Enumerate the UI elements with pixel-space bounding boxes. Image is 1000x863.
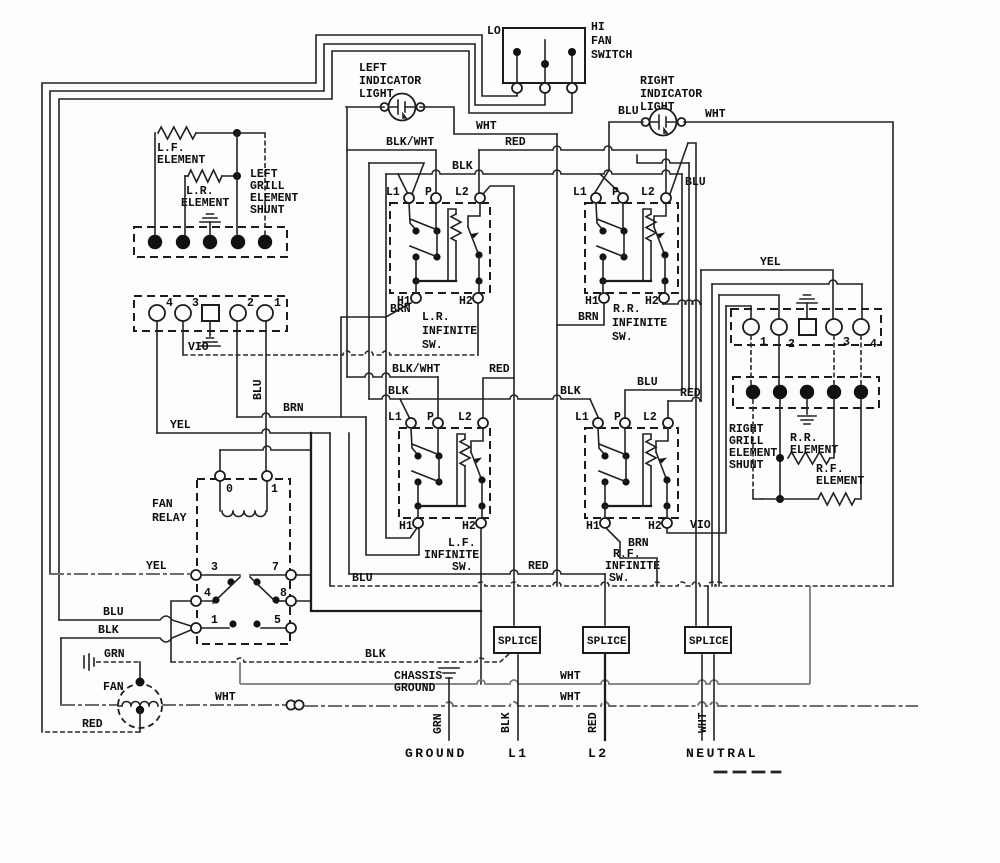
svg-text:SW.: SW. <box>422 339 443 352</box>
lamp symbol left indicator <box>381 94 425 121</box>
svg-text:BRN: BRN <box>283 402 304 415</box>
svg-text:INFINITE: INFINITE <box>422 325 477 338</box>
fan relay K1 <box>197 471 290 644</box>
svg-text:SW.: SW. <box>452 561 473 574</box>
ground symbol GRN <box>84 648 140 670</box>
left indicator light DS1 <box>359 62 421 101</box>
wire fan switch pin1 to left rail (outer nested line) <box>42 35 517 732</box>
wire BRN branch to H1 of L.R. <box>341 303 411 417</box>
ground above element block <box>209 222 211 235</box>
wire diagonal BLK to P of R.R. <box>600 174 621 194</box>
wire RED lower bus to splice 2 <box>349 570 605 574</box>
wire YEL into relay pin 3 <box>50 573 191 575</box>
svg-text:ELEMENT: ELEMENT <box>181 197 229 210</box>
wire diagonal BLK to L1 L.F. <box>400 399 410 419</box>
svg-text:SW.: SW. <box>609 572 630 585</box>
wire BLU lower bus <box>330 582 893 586</box>
svg-text:H1: H1 <box>397 295 411 308</box>
wire RED stem into R.F. L2 <box>667 401 669 418</box>
svg-text:L2: L2 <box>455 186 469 199</box>
svg-text:P: P <box>614 411 621 424</box>
svg-text:RIGHT: RIGHT <box>640 75 675 88</box>
infinite switch R.F. <box>585 418 678 528</box>
svg-text:H1: H1 <box>399 520 413 533</box>
wire left indicator left lead <box>346 106 384 108</box>
wire VIO up to H2 of L.R. <box>477 303 479 355</box>
svg-text:H1: H1 <box>586 520 600 533</box>
svg-text:YEL: YEL <box>146 560 167 573</box>
wire BLK lower bus <box>369 395 590 399</box>
wire YEL from R.R. H2 <box>662 303 664 304</box>
wire diagonal into R.F. L1 <box>590 399 598 417</box>
svg-text:SPLICE: SPLICE <box>587 636 627 648</box>
wire rail x712 <box>711 284 713 586</box>
infinite switch R.R. <box>585 193 678 303</box>
wire stair drop x330 <box>329 433 331 586</box>
wire WHT riser x810 <box>809 586 811 684</box>
svg-text:3: 3 <box>192 297 199 310</box>
svg-text:L1: L1 <box>573 186 587 199</box>
wire BRN to H1 of L.F. <box>366 417 419 555</box>
wires pins to element block right <box>750 335 752 385</box>
svg-text:BLK: BLK <box>365 648 386 661</box>
connector block right pins 1 2 3 4 <box>731 309 881 351</box>
svg-text:BLK/WHT: BLK/WHT <box>392 363 440 376</box>
svg-text:ELEMENT: ELEMENT <box>816 475 864 488</box>
wire vertical x369 L1 tie drop <box>368 163 370 399</box>
svg-text:BLU: BLU <box>103 606 124 619</box>
bottom terminal labels <box>405 746 758 761</box>
labels R.R. terminals <box>573 186 659 308</box>
svg-text:BLU: BLU <box>637 376 658 389</box>
wire BLK bus <box>386 170 682 174</box>
wire WHT middle run <box>239 662 241 684</box>
svg-text:SHUNT: SHUNT <box>250 204 285 217</box>
infinite switch L.R. <box>390 193 490 303</box>
svg-text:L.R.: L.R. <box>422 311 450 324</box>
wire diagonal feed L2 R.R. <box>670 143 688 194</box>
wire WHT fan line <box>162 704 287 706</box>
wire RED from R.F. L2 riser <box>668 397 701 401</box>
wire BRN from pin 2 <box>236 321 238 417</box>
wire GRN stub <box>448 678 450 740</box>
svg-text:SW.: SW. <box>612 331 633 344</box>
wire RED branch to L2 of L.F. <box>483 378 514 418</box>
wire RED to L2 of R.R. <box>665 150 667 192</box>
right grill element shunt dashed <box>729 399 777 499</box>
fan motor M1 <box>103 662 162 728</box>
wire BRN from R.R. H1 <box>557 303 604 325</box>
wire relay pin0 feed <box>220 446 311 450</box>
wire from relay pin 4 <box>171 601 191 662</box>
splice box 3 <box>685 627 731 653</box>
svg-text:WHT: WHT <box>215 691 236 704</box>
svg-text:RELAY: RELAY <box>152 512 187 525</box>
svg-text:L1: L1 <box>575 411 589 424</box>
svg-text:WHT: WHT <box>560 691 581 704</box>
svg-text:BLU: BLU <box>252 379 265 400</box>
svg-text:WHT: WHT <box>560 670 581 683</box>
svg-text:INFINITE: INFINITE <box>612 317 667 330</box>
relay contacts 1/5 row <box>191 614 296 633</box>
svg-text:WHT: WHT <box>705 108 726 121</box>
label L.R. INFINITE SW. <box>422 311 477 352</box>
svg-text:FAN: FAN <box>152 498 173 511</box>
wire YEL top right <box>701 270 833 319</box>
svg-text:VIO: VIO <box>690 519 711 532</box>
labels R.F. terminals <box>575 411 662 533</box>
svg-text:1: 1 <box>211 614 218 627</box>
label HI FAN SWITCH <box>591 21 633 62</box>
svg-text:LIGHT: LIGHT <box>359 88 394 101</box>
wire BLK/WHT vertical from indicator <box>346 107 348 377</box>
svg-text:GROUND: GROUND <box>405 746 467 761</box>
svg-text:4: 4 <box>204 587 211 600</box>
svg-text:8: 8 <box>280 587 287 600</box>
svg-text:R.R.: R.R. <box>613 303 641 316</box>
lamp symbol right indicator <box>642 109 686 136</box>
splice box 1 <box>494 627 540 653</box>
svg-text:VIO: VIO <box>188 341 209 354</box>
wire fan switch pin3 to BLU rail (inner nested line) <box>59 51 572 620</box>
svg-text:H2: H2 <box>462 520 476 533</box>
wire BLU drop to P of R.F. <box>625 174 682 418</box>
svg-text:0: 0 <box>226 483 233 496</box>
wire H2 L.F. stem down <box>480 529 482 574</box>
label L.F. INFINITE SW. <box>424 537 479 574</box>
wire RED stair drop <box>348 433 350 574</box>
fan switch S1 <box>503 28 585 93</box>
wire BLU from right indicator to L.R. switch L1 <box>594 122 643 194</box>
wire BLU from pin 1 to relay coil <box>265 321 267 471</box>
svg-text:RED: RED <box>82 718 103 731</box>
wire splice3 right stem <box>707 586 709 625</box>
svg-text:2: 2 <box>788 338 795 351</box>
wire BLU into relay pin 1 <box>59 616 191 626</box>
wire feed to right pin 2 <box>719 295 779 319</box>
wire relay pin7 tie <box>296 574 311 576</box>
svg-text:H2: H2 <box>459 295 473 308</box>
labels L.R. terminals <box>386 186 473 308</box>
wire feed to right pin 1 <box>726 306 751 319</box>
svg-text:L2: L2 <box>641 186 655 199</box>
wire YEL from pin 4 <box>156 321 158 433</box>
wire vertical x481 <box>480 574 482 684</box>
wire from L2 L.R. down to splice 1 <box>484 186 514 625</box>
svg-text:NEUTRAL: NEUTRAL <box>686 746 758 761</box>
label R.F. INFINITE SW. <box>605 548 660 585</box>
relay contacts 4/8 row <box>191 587 296 606</box>
svg-text:WHT: WHT <box>697 712 710 733</box>
svg-text:BLK: BLK <box>500 712 513 733</box>
relay contacts 3/7 row <box>191 561 296 603</box>
svg-text:SHUNT: SHUNT <box>729 459 764 472</box>
svg-text:SWITCH: SWITCH <box>591 49 633 62</box>
wire rail x696 to splice 3 <box>688 143 696 625</box>
svg-text:4: 4 <box>870 338 877 351</box>
svg-text:LO: LO <box>487 25 501 38</box>
svg-text:INDICATOR: INDICATOR <box>359 75 421 88</box>
wire stub to rail x689 <box>637 155 689 163</box>
wire splice3 stems down to NEUTRAL <box>701 655 703 740</box>
svg-text:BLK: BLK <box>98 624 119 637</box>
element terminal block right (5 contacts) <box>733 377 879 408</box>
wire RED fan to left rail <box>139 710 141 732</box>
resistor L.R. element <box>181 133 241 235</box>
labels L.F. terminals <box>388 411 476 533</box>
svg-text:YEL: YEL <box>170 419 191 432</box>
wire WHT left indicator to L.F. drop <box>420 107 557 134</box>
wire L1 tie with diagonal into L.R. L1 <box>369 163 424 194</box>
wire splice2 stem down to L2 <box>604 655 606 740</box>
svg-text:SPLICE: SPLICE <box>689 636 729 648</box>
relay coil <box>220 481 267 517</box>
svg-text:BLK: BLK <box>388 385 409 398</box>
wire thick stair down to splice row <box>311 433 481 611</box>
wire BLK into relay pin 1 <box>60 638 62 705</box>
svg-text:FAN: FAN <box>103 681 124 694</box>
svg-text:INDICATOR: INDICATOR <box>640 88 702 101</box>
dashes under NEUTRAL <box>715 771 780 774</box>
resistor R.F. element <box>762 399 864 505</box>
svg-text:RED: RED <box>680 387 701 400</box>
svg-text:FAN: FAN <box>591 35 612 48</box>
wire BRN from R.F. H1 <box>607 529 657 586</box>
wire WHT dotted bottom run <box>304 702 918 706</box>
wire into relay pin 0 <box>219 450 221 471</box>
connector block left pins 4 3 2 1 <box>134 296 287 331</box>
resistor R.R. element <box>776 399 838 499</box>
svg-text:3: 3 <box>211 561 218 574</box>
svg-text:L2: L2 <box>588 746 609 761</box>
svg-text:2: 2 <box>247 297 254 310</box>
wire VIO from pin 3 <box>182 321 184 355</box>
svg-text:LEFT: LEFT <box>359 62 387 75</box>
svg-text:P: P <box>612 186 619 199</box>
infinite switch L.F. <box>399 418 490 528</box>
wire BLK/WHT to P of L.F. switch <box>347 373 438 377</box>
svg-text:BLU: BLU <box>352 572 373 585</box>
svg-text:BLU: BLU <box>685 176 706 189</box>
wire grey into fan left <box>61 704 118 706</box>
wire vertical x557 WHT drop <box>556 134 558 586</box>
svg-text:L2: L2 <box>643 411 657 424</box>
svg-text:4: 4 <box>166 297 173 310</box>
svg-text:RED: RED <box>505 136 526 149</box>
wire VIO from R.F. H2 <box>667 306 726 533</box>
svg-text:1: 1 <box>274 297 281 310</box>
svg-text:RED: RED <box>489 363 510 376</box>
svg-text:7: 7 <box>272 561 279 574</box>
chassis ground at connector square <box>209 321 211 336</box>
svg-text:WHT: WHT <box>476 120 497 133</box>
resistor L.F. element <box>155 127 241 235</box>
label R.R. INFINITE SW. <box>612 303 667 344</box>
wire fan switch pin2 to YEL rail (middle nested line) <box>50 44 545 574</box>
svg-text:L1: L1 <box>386 186 400 199</box>
svg-text:P: P <box>427 411 434 424</box>
wire rail x689 <box>688 163 690 390</box>
wire RED bus top <box>479 146 666 150</box>
svg-text:RED: RED <box>587 712 600 733</box>
chassis ground above right square <box>806 303 808 319</box>
wire BLK/WHT to P of L.R. switch <box>347 150 436 192</box>
wire relay pin8 tie <box>296 600 311 602</box>
left grill element shunt (dashed) <box>237 133 298 235</box>
svg-text:L1: L1 <box>508 746 529 761</box>
svg-text:YEL: YEL <box>760 256 781 269</box>
svg-text:H1: H1 <box>585 295 599 308</box>
svg-text:HI: HI <box>591 21 605 34</box>
svg-text:5: 5 <box>274 614 281 627</box>
wire WHT right rail from indicator <box>684 122 893 586</box>
svg-text:H2: H2 <box>645 295 659 308</box>
svg-text:1: 1 <box>271 483 278 496</box>
wire feed to right pin 4 <box>712 280 862 284</box>
splice box 2 <box>583 627 629 653</box>
svg-text:BLK: BLK <box>452 160 473 173</box>
svg-text:ELEMENT: ELEMENT <box>790 444 838 457</box>
wire diagonal BLK to L1 L.R. <box>398 174 408 194</box>
svg-text:SPLICE: SPLICE <box>498 636 538 648</box>
svg-text:GROUND: GROUND <box>394 682 436 695</box>
right indicator light DS2 <box>640 75 702 114</box>
svg-text:1: 1 <box>760 336 767 349</box>
svg-text:BLK/WHT: BLK/WHT <box>386 136 434 149</box>
svg-text:P: P <box>425 186 432 199</box>
svg-text:L1: L1 <box>388 411 402 424</box>
wire RED to L2 of L.R. <box>478 150 480 192</box>
wire splice1 stem down to L1 <box>517 655 519 740</box>
svg-text:BLK: BLK <box>560 385 581 398</box>
svg-text:H2: H2 <box>648 520 662 533</box>
wire drop x386 to H1 of L.F. <box>386 174 417 538</box>
svg-text:RED: RED <box>528 560 549 573</box>
svg-text:BRN: BRN <box>628 537 649 550</box>
wire rail x719 <box>718 295 720 586</box>
ground below right element block <box>806 399 808 414</box>
svg-text:GRN: GRN <box>432 713 445 734</box>
connector pair on WHT fan wire <box>286 700 295 709</box>
svg-text:L2: L2 <box>458 411 472 424</box>
svg-text:ELEMENT: ELEMENT <box>157 154 205 167</box>
wire BLK to splice 1 <box>171 654 509 662</box>
chassis ground symbol <box>394 668 459 695</box>
svg-text:BRN: BRN <box>578 311 599 324</box>
svg-text:BLU: BLU <box>618 105 639 118</box>
svg-text:3: 3 <box>843 336 850 349</box>
svg-text:GRN: GRN <box>104 648 125 661</box>
element terminal block left (5 contacts) <box>134 227 287 257</box>
